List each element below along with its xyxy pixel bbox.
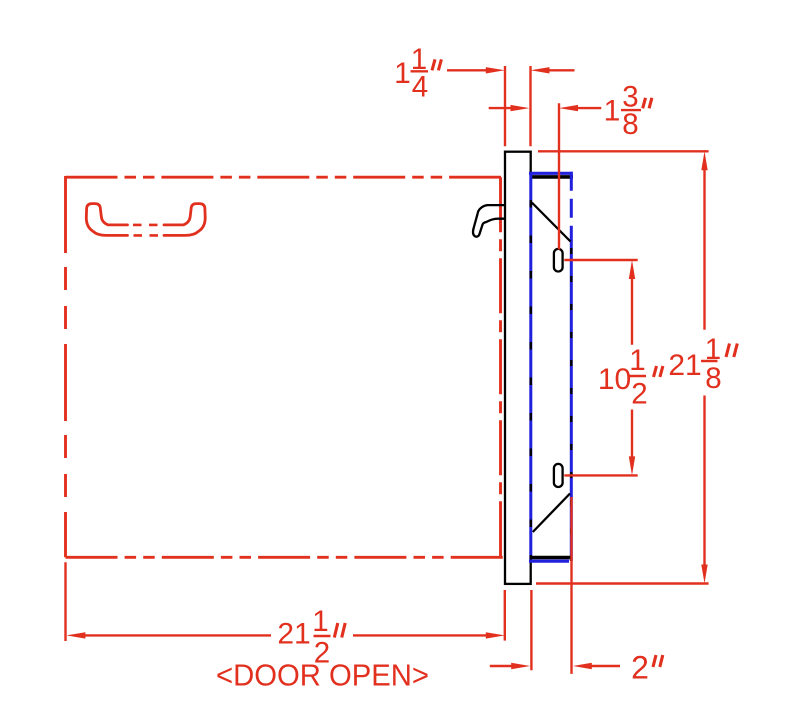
- lower mounting slot: [554, 464, 563, 487]
- fraction bar of 1/2: [630, 375, 647, 377]
- dimension text 21 1/2": [277, 605, 330, 670]
- inch mark for 2": [653, 655, 663, 667]
- dimension 21 1/2" (door open): right extension line: [504, 590, 506, 641]
- svg-text:21: 21: [277, 618, 310, 651]
- door handle (open position, red plan view): right end solid: [164, 204, 205, 236]
- dimension 10 1/2": vertical line upper segment with up arrow: [629, 260, 635, 345]
- fraction bar of 1/2 (door open dim): [314, 635, 331, 637]
- fraction bar of 1/8: [701, 360, 718, 362]
- door handle (open position, red plan view): left end solid: [86, 204, 127, 236]
- svg-text:1: 1: [629, 344, 645, 377]
- door open phantom outline: top edge: [66, 176, 502, 179]
- svg-text:2: 2: [631, 378, 647, 411]
- door handle side view (black, on wall face): [473, 205, 505, 237]
- svg-text:2: 2: [631, 650, 649, 686]
- inch mark for 21 1/2": [334, 623, 345, 638]
- svg-text:4: 4: [412, 71, 428, 104]
- cabinet box: black top bar: [531, 175, 573, 179]
- svg-text:8: 8: [705, 362, 721, 395]
- svg-text:1: 1: [312, 605, 328, 638]
- dimension 1 1/4": extension line at x=530.5: [529, 66, 531, 146]
- cabinet box: black bottom bar: [532, 556, 572, 560]
- svg-text:1: 1: [394, 57, 411, 90]
- door open phantom outline: left edge: [64, 176, 67, 557]
- dimension 1 3/8": left leader with right-pointing arrow: [489, 105, 530, 111]
- fraction bar of 3/8: [621, 109, 641, 111]
- leader line from lower slot to 10 1/2" dimension: [564, 474, 637, 476]
- svg-text:21: 21: [668, 349, 701, 382]
- svg-text:8: 8: [622, 108, 638, 141]
- dimension 2": left extension line: [530, 590, 532, 670]
- extension line from bottom of assembly to 21 1/8" dimension: [536, 582, 709, 584]
- dimension 1 3/8": right leader with left-pointing arrow: [559, 105, 601, 111]
- cabinet box: blue bottom edge: [529, 559, 569, 562]
- leader line from upper slot to 10 1/2" dimension: [564, 259, 637, 261]
- dimension 2": right leader with left-pointing arrow: [573, 663, 620, 669]
- dimension text 10 1/2": [598, 344, 648, 411]
- svg-text:1: 1: [604, 95, 621, 128]
- inch mark for 10 1/2": [654, 366, 663, 377]
- cabinet box: blue right edge lower part (solid): [570, 242, 573, 561]
- dimension 21 1/2": line right segment with right arrow: [353, 632, 505, 638]
- dimension 1 1/4": extension line at wall face x=505: [504, 66, 506, 146]
- cabinet box: upper diagonal brace: [532, 203, 571, 242]
- inch mark for 21 1/8": [726, 344, 737, 358]
- svg-text:10: 10: [598, 363, 631, 396]
- inch mark for 1 1/4": [432, 59, 441, 70]
- dimension 21 1/8": vertical line upper segment with up arrow: [701, 151, 707, 329]
- dimension 10 1/2": vertical line lower segment with down arrow: [629, 410, 635, 476]
- dimension 21 1/2": line left segment with left arrow: [66, 632, 271, 638]
- dimension text 1 3/8": [604, 81, 639, 142]
- door handle hidden middle dashes (outer line): [134, 234, 159, 237]
- cabinet box: lower diagonal brace: [533, 494, 570, 533]
- inch mark for 1 3/8": [643, 98, 652, 109]
- upper mounting slot: [554, 249, 563, 272]
- wall panel (black rectangle, door closed side view): [505, 152, 531, 584]
- cabinet box: blue top edge: [529, 172, 573, 175]
- dimension 1 1/4": right leader with left-pointing arrow: [531, 67, 575, 73]
- extension line from top of wall panel to 21 1/8" dimension: [538, 150, 709, 152]
- cabinet box: black hidden dashes over left edge: [530, 200, 532, 561]
- dimension text 1 1/4": [394, 43, 428, 104]
- dimension text 21 1/8": [668, 333, 721, 395]
- dimension 21 1/8": vertical line lower segment with down arrow: [701, 396, 707, 584]
- dimension 1 1/4": left leader with right-pointing arrow: [447, 67, 505, 73]
- dimension 2": left leader with right-pointing arrow: [490, 663, 530, 669]
- door handle hidden middle dashes (inner line): [133, 224, 158, 227]
- door open phantom outline: right edge (hinge line): [499, 177, 502, 557]
- cabinet box: blue right edge upper part (dashed): [570, 172, 573, 242]
- door open phantom outline: bottom edge: [66, 556, 504, 559]
- dimension 1 3/8": extension line at slot centerline x=559: [558, 103, 560, 249]
- dimension 2": right extension line: [570, 497, 572, 674]
- cabinet box: blue left edge (solid): [529, 173, 532, 561]
- fraction bar of 1/4: [411, 70, 429, 72]
- cabinet box: black hidden dashes over right edge: [570, 248, 572, 561]
- svg-text:<DOOR OPEN>: <DOOR OPEN>: [216, 658, 429, 693]
- dimension 21 1/2" (door open): left extension line: [64, 562, 66, 641]
